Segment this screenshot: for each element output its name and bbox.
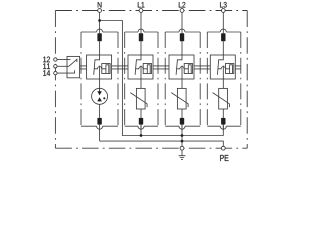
wire L1 fuse to spark gap box [140,41,142,55]
wire exit hop arc N [97,126,103,129]
disconnector (top) L3 [221,33,225,41]
wire L1 spark box to varistor [140,79,142,88]
module outline L1 (dash-dot) [125,31,158,33]
disconnector (top) L1 [139,33,143,41]
wire entry hop arc L2 [179,29,185,32]
wire L1 output to bus [140,125,142,136]
wire N-PE gap to bottom disconnector [99,104,101,118]
trigger line with hop L3 [218,67,230,69]
wire exit hop arc L3 [220,126,226,129]
disconnector (bottom) L1 [139,118,143,125]
wire L2 spark box to varistor [181,79,183,88]
earth ground symbol [179,150,186,159]
wire L1 module output [140,125,142,131]
wire L3 module output [222,125,224,131]
varistor L2 [177,88,186,109]
wire entry hop arc L3 [220,29,226,32]
module outline N (dash-dot) [81,31,118,33]
terminal 14 [54,71,57,74]
wire entry hop arc L1 [138,29,144,32]
trigger unit box L1 [143,64,151,74]
wire L3 terminal to module [222,12,224,33]
wire L3 varistor to bottom disconnector [222,109,224,118]
label PE [220,155,228,161]
module outline L2 (dash-dot) [165,31,200,33]
PE bus wire [100,141,224,146]
disconnector (top) N [97,33,101,41]
N-PE spark gap circle [92,88,108,104]
terminal 11 [54,65,57,68]
module outline L3 (dash-dot) [207,31,241,33]
junction L2/PE bus [181,140,184,143]
spark gap electrodes L3 [217,55,223,75]
trigger unit box L2 [184,64,192,74]
spark gap module box L1 [128,55,153,79]
terminal L1 [139,9,143,13]
wire exit hop arc L1 [138,126,144,129]
wire L2 output down to earth terminal [181,125,183,147]
wire N spark box to N-PE gap [99,79,101,92]
wire N fuse to spark gap box [99,41,101,55]
junction N [98,19,101,22]
wire L2 module output [181,125,183,131]
contact 12 wire [57,59,70,61]
terminal L3 [221,9,225,13]
trigger unit box N [102,64,110,74]
label N [98,2,102,7]
changeover contact blade [69,59,77,66]
mechanical coupling lines 3 [153,66,169,69]
disconnector (top) L2 [180,33,184,41]
label 14 [43,70,50,76]
wire exit hop arc L2 [179,126,185,129]
terminal L2 [180,9,184,13]
terminal PE [221,146,225,150]
contact 14 wire with hook [57,70,74,73]
spark gap electrodes N [94,55,100,75]
mechanical coupling lines 1 [80,66,87,69]
spark gap module box N [87,55,112,79]
label 12 [43,57,50,63]
mechanical coupling lines 5 [235,66,241,69]
remote signalling contact box [67,56,80,77]
trigger line with hop N [94,67,106,69]
wire L2 terminal to module [181,12,183,33]
wire N junction hook to L-gap common bus [100,21,224,136]
wire L1 varistor to bottom disconnector [140,109,142,118]
wire L2 fuse to spark gap box [181,41,183,55]
outer device boundary (dash-dot) [55,10,247,12]
wire N terminal to module [99,12,101,33]
terminal N [98,9,102,13]
disconnector (bottom) L2 [180,118,184,125]
disconnector (bottom) N [97,118,101,125]
trigger line with hop L2 [177,67,189,69]
disconnector (bottom) L3 [221,118,225,125]
label L3 [220,2,227,8]
label L2 [179,2,186,8]
spark gap module box L2 [169,55,194,79]
terminal 12 [54,58,57,61]
varistor L1 [136,88,145,109]
terminal earth [180,146,184,150]
wire entry hop arc N [97,29,103,32]
spark gap module box L3 [210,55,235,79]
wire L3 fuse to spark gap box [222,41,224,55]
wire L1 terminal to module [140,12,142,33]
trigger line with hop L1 [136,67,148,69]
wire L3 spark box to varistor [222,79,224,88]
spark gap electrodes L2 [176,55,182,75]
trigger unit box L3 [226,64,234,74]
wire L2 varistor to bottom disconnector [181,109,183,118]
spark gap electrodes L1 [135,55,141,75]
contact 11 wire [57,65,69,67]
wire N module output to PE bus [99,125,101,142]
junction L1/bus [140,134,143,137]
label L1 [138,2,145,7]
mechanical coupling lines 2 [112,66,128,69]
varistor L3 [219,88,228,109]
label 11 [43,63,50,69]
junction L2/bus [181,134,184,137]
mechanical coupling lines 4 [194,66,210,69]
